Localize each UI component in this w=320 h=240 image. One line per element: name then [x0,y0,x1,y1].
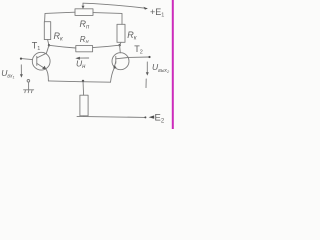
node input terminal [20,58,22,60]
wire Rэ bottom and bottom bus to -E2 [77,116,145,118]
svg-text:Rк: Rк [127,30,138,42]
wire Rп right to Rк2 top [93,13,122,25]
wire collector lead T2 from node [119,45,122,53]
output lower terminal stroke [145,79,147,88]
wire Rн to collector T2 node [93,45,120,47]
resistor Rн [76,46,93,52]
wire top from Rп wiper to +E1 [83,3,147,8]
wire emitter bus [48,81,110,82]
arrow Uн [75,57,88,60]
notebook margin line [172,0,174,129]
wire emitter T1 down [46,69,48,81]
node collector T1 [48,44,50,46]
wire collector T1 [46,45,49,53]
svg-text:Rн: Rн [80,35,89,45]
node collector T2 [118,44,120,46]
node +E1 arrowhead [144,7,148,10]
svg-text:T1: T1 [32,41,41,53]
svg-text:Rп: Rп [80,19,91,31]
svg-text:E2: E2 [155,113,165,125]
terminal circle above ground [27,80,30,83]
wire junction down to Rэ [82,81,85,95]
svg-text:Uн: Uн [76,59,86,71]
wire Rк2 bottom to collector node [120,42,121,45]
svg-text:T2: T2 [134,44,143,56]
svg-text:+E1: +E1 [150,7,164,19]
wire base T1 to input terminal [21,59,32,60]
wire collector T2 to output terminal [129,56,150,58]
wire Rп left to Rк1 top [45,12,75,22]
transistor T1 [32,52,50,70]
node -E2 terminal [144,116,146,118]
output arrow Uвых [146,62,149,76]
node emitter junction [82,80,84,82]
svg-text:Uвых2: Uвых2 [152,62,170,74]
wire Rк1 bottom to collector node [48,40,49,46]
resistor Rэ [80,95,88,116]
potentiometer Rп wiper arrow [82,3,85,9]
transistor T2 [112,53,129,70]
resistor Rп [75,9,93,16]
input arrow Uвх [20,65,23,78]
svg-text:Uвх1: Uвх1 [1,68,14,80]
svg-text:Rк: Rк [54,31,65,43]
wire collector T1 node to Rн [49,45,76,48]
wire terminal to ground [28,82,30,89]
resistor Rк2 [117,24,125,42]
arrowhead -E2 [149,115,155,118]
node output terminal [148,56,150,58]
resistor Rк1 [44,22,50,40]
ground [24,90,34,93]
wire emitter T2 down [111,69,115,83]
